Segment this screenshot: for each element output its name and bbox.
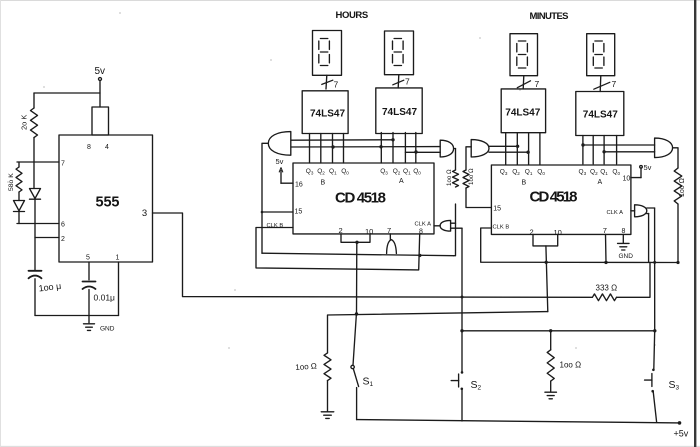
svg-text:5: 5: [86, 255, 90, 262]
svg-text:2: 2: [339, 226, 343, 235]
svg-text:CLK A: CLK A: [607, 210, 624, 216]
svg-text:8: 8: [87, 144, 91, 151]
svg-text:74LS47: 74LS47: [583, 110, 618, 121]
svg-text:7: 7: [387, 226, 391, 235]
svg-text:7: 7: [535, 79, 540, 89]
svg-text:B: B: [522, 179, 527, 186]
svg-text:74LS47: 74LS47: [382, 107, 417, 118]
svg-text:5v: 5v: [644, 163, 652, 172]
svg-text:2: 2: [530, 227, 534, 236]
svg-text:74LS47: 74LS47: [310, 109, 345, 120]
svg-text:5v: 5v: [95, 66, 106, 77]
svg-text:7: 7: [334, 80, 339, 90]
svg-text:555: 555: [96, 195, 120, 211]
svg-text:5v: 5v: [276, 157, 284, 166]
svg-text:10: 10: [554, 228, 562, 237]
svg-text:15: 15: [295, 209, 303, 216]
svg-text:10: 10: [365, 227, 373, 236]
svg-text:CLK B: CLK B: [267, 223, 284, 229]
svg-text:CD 4518: CD 4518: [335, 190, 386, 207]
svg-text:7: 7: [612, 79, 617, 89]
svg-text:4: 4: [105, 144, 109, 151]
svg-text:B: B: [321, 180, 326, 187]
svg-text:1oo Ω: 1oo Ω: [295, 362, 317, 372]
svg-text:GND: GND: [100, 326, 115, 333]
svg-text:CLK B: CLK B: [493, 225, 510, 231]
svg-text:7: 7: [405, 77, 410, 87]
svg-text:0.01μ: 0.01μ: [94, 293, 116, 303]
svg-text:A: A: [399, 178, 404, 185]
svg-text:58o K: 58o K: [8, 173, 15, 191]
svg-text:CD 4518: CD 4518: [530, 189, 578, 206]
svg-text:2o K: 2o K: [20, 115, 29, 130]
svg-text:7: 7: [61, 161, 65, 168]
svg-text:1oo Ω: 1oo Ω: [468, 168, 475, 185]
svg-text:15: 15: [493, 206, 501, 213]
svg-text:MINUTES: MINUTES: [530, 11, 569, 22]
svg-text:333 Ω: 333 Ω: [596, 284, 618, 293]
svg-text:3: 3: [142, 208, 147, 219]
svg-text:HOURS: HOURS: [336, 10, 369, 21]
svg-text:16: 16: [295, 182, 303, 189]
svg-text:1oo Ω: 1oo Ω: [679, 178, 686, 197]
svg-text:A: A: [598, 179, 603, 186]
svg-text:CLK A: CLK A: [415, 222, 432, 228]
svg-text:74LS47: 74LS47: [505, 108, 540, 119]
svg-text:1oo Ω: 1oo Ω: [446, 169, 453, 186]
svg-text:6: 6: [61, 222, 65, 229]
svg-text:8: 8: [419, 229, 423, 236]
svg-text:GND: GND: [619, 253, 634, 260]
svg-text:7: 7: [603, 226, 607, 235]
svg-text:10: 10: [623, 176, 631, 183]
svg-text:2: 2: [61, 236, 65, 243]
svg-text:+5v: +5v: [674, 429, 689, 439]
svg-text:1: 1: [116, 255, 120, 262]
svg-text:1oo Ω: 1oo Ω: [560, 361, 582, 370]
svg-text:8: 8: [622, 228, 626, 235]
